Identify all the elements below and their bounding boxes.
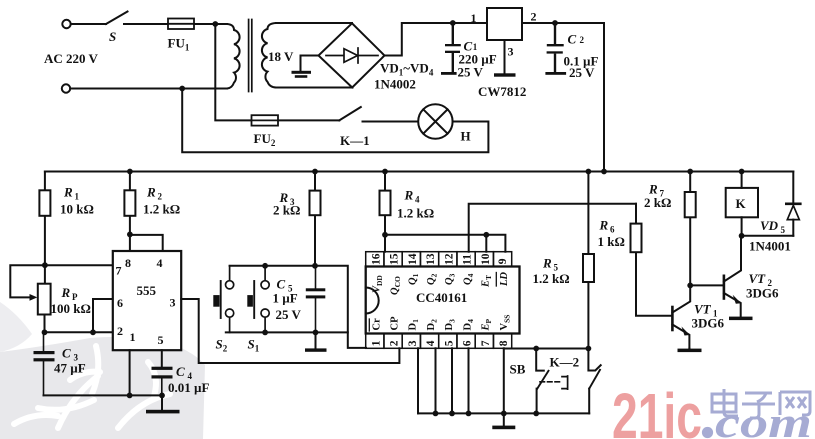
svg-text:3DG6: 3DG6 xyxy=(746,286,779,301)
svg-text:3: 3 xyxy=(508,45,514,59)
transformer core xyxy=(249,20,252,92)
svg-text:12: 12 xyxy=(443,253,455,265)
node C5 bottom xyxy=(313,330,319,336)
svg-text:1.2 kΩ: 1.2 kΩ xyxy=(143,202,180,217)
IC Cr overline xyxy=(368,319,370,331)
wire K-1 to lamp H xyxy=(363,121,419,123)
svg-text:4: 4 xyxy=(425,340,437,346)
node S1 top xyxy=(262,263,268,269)
IC bottom pin boxes 1..8 xyxy=(366,334,512,349)
svg-text:5: 5 xyxy=(781,225,786,235)
label RP 100k xyxy=(51,285,91,316)
AC input terminal top xyxy=(62,20,70,28)
label R7 2k xyxy=(644,182,671,211)
switch S blade xyxy=(106,12,128,25)
resistor R2 xyxy=(124,172,135,252)
svg-text:13: 13 xyxy=(425,253,437,265)
svg-text:2: 2 xyxy=(158,192,163,202)
wire RP wiper loop xyxy=(10,265,45,297)
node pin6 branch xyxy=(90,329,96,335)
wire S bottom to ground xyxy=(226,331,348,333)
svg-text:9: 9 xyxy=(497,258,509,264)
svg-text:LD: LD xyxy=(499,272,510,287)
svg-text:6: 6 xyxy=(462,340,474,346)
resistor R7 xyxy=(685,172,696,286)
svg-text:25 V: 25 V xyxy=(569,65,595,80)
svg-text:C: C xyxy=(62,346,71,361)
wire rail to K top xyxy=(741,172,743,188)
svg-text:VT: VT xyxy=(749,271,767,286)
svg-text:4: 4 xyxy=(415,195,420,205)
node R5 bottom xyxy=(586,346,592,352)
resistor R5 xyxy=(583,172,594,349)
label C4 0.01uF xyxy=(168,364,209,395)
svg-text:47 µF: 47 µF xyxy=(54,361,86,376)
contact K-2 lower lead xyxy=(588,389,590,414)
linkage dashes SB to K-2 xyxy=(540,381,562,383)
contact K-2 blade xyxy=(589,370,600,389)
resistor R3 xyxy=(310,172,321,266)
node R3 on rail xyxy=(312,169,318,175)
node rail ground xyxy=(501,411,507,417)
svg-text:CW7812: CW7812 xyxy=(478,84,526,99)
node R5 on rail xyxy=(586,169,592,175)
wire +12V rail xyxy=(45,171,793,173)
svg-text:K—1: K—1 xyxy=(340,133,370,148)
regulator pin 3 lead xyxy=(504,40,506,73)
svg-text:com: com xyxy=(715,400,812,439)
svg-text:2: 2 xyxy=(389,340,401,346)
svg-text:1: 1 xyxy=(75,192,80,202)
svg-text:R: R xyxy=(63,185,73,200)
wire AC top to switch S xyxy=(71,23,106,25)
fuse FU2 xyxy=(252,115,279,125)
wire secondary top to bridge xyxy=(276,22,352,24)
transformer secondary winding xyxy=(262,23,276,88)
node SB top xyxy=(533,346,539,352)
svg-text:1 µF: 1 µF xyxy=(273,291,298,306)
wire Q4 pin11 up and right to R6 xyxy=(469,204,636,252)
node R2 on rail xyxy=(127,169,133,175)
IC bottom pin names xyxy=(371,315,511,332)
wire FU2 branch vertical xyxy=(215,24,251,120)
svg-text:8: 8 xyxy=(125,256,131,270)
label C5 1uF 25V xyxy=(273,277,302,323)
svg-text:25 V: 25 V xyxy=(458,65,484,80)
svg-text:100 kΩ: 100 kΩ xyxy=(51,301,91,316)
node rail D2 xyxy=(433,411,439,417)
lamp H xyxy=(418,104,452,138)
switch S2 contacts xyxy=(226,266,234,333)
switch S2 actuator xyxy=(213,281,220,318)
svg-text:AC 220 V: AC 220 V xyxy=(44,51,99,66)
switch S1 contacts xyxy=(261,266,269,333)
regulator CW7812 box xyxy=(487,8,522,40)
svg-text:C: C xyxy=(568,32,577,47)
wire pin2 of 555 xyxy=(45,331,113,333)
diode VD5 xyxy=(786,172,800,236)
node R2 pin8 junction xyxy=(127,232,133,238)
svg-text:2: 2 xyxy=(531,10,537,24)
IC LD overline xyxy=(495,273,497,287)
wire VSS row to R5 bottom xyxy=(504,348,589,350)
wire VDD ET LD node xyxy=(385,235,505,252)
capacitor C3 xyxy=(34,332,55,395)
switch SB upper contact xyxy=(536,349,544,371)
node VT1 collector VT2 base xyxy=(687,283,693,289)
switch SB blade xyxy=(537,371,548,389)
svg-text:1N4002: 1N4002 xyxy=(374,77,416,92)
wire node to VT2 base xyxy=(690,284,724,286)
label C1 220uF 25V xyxy=(458,39,497,80)
svg-text:CC40161: CC40161 xyxy=(416,290,467,305)
label R4 1.2k xyxy=(397,188,434,221)
AC input terminal bottom xyxy=(62,84,70,92)
svg-text:1N4001: 1N4001 xyxy=(749,239,791,254)
node R4 bottom VDD xyxy=(382,232,388,238)
svg-text:1: 1 xyxy=(473,42,478,52)
capacitor C4 xyxy=(152,367,173,396)
bridge ground bars xyxy=(292,71,312,78)
wire VSS column xyxy=(503,348,505,413)
resistor R4 xyxy=(380,172,391,235)
ground symbol below rail xyxy=(492,413,515,429)
svg-text:5: 5 xyxy=(158,333,164,347)
linkage bracket xyxy=(562,376,568,389)
wire tie pins 8-4 xyxy=(130,235,163,251)
label VT2 3DG6 xyxy=(746,271,779,301)
IC bottom pin numbers xyxy=(371,340,511,346)
transistor VT1 xyxy=(672,285,701,352)
svg-text:8: 8 xyxy=(498,340,510,346)
resistor R6 xyxy=(631,204,672,316)
IC notch xyxy=(366,288,379,314)
wire K bottom to VD5 xyxy=(742,235,794,237)
label VT1 3DG6 xyxy=(692,302,725,331)
switch S1 actuator xyxy=(247,281,254,318)
red watermark 21ic.com (decorative) xyxy=(612,380,812,439)
svg-text:5: 5 xyxy=(443,340,455,346)
wire 555 pin5 down xyxy=(161,350,163,367)
svg-text:Cr: Cr xyxy=(371,318,382,331)
wire C3 bottom to 555 ground xyxy=(44,394,163,396)
label C3 47uF xyxy=(54,346,86,376)
wire switch S to fuse FU1 xyxy=(124,23,168,25)
svg-text:555: 555 xyxy=(137,283,157,298)
svg-text:1: 1 xyxy=(130,330,136,344)
node pin10 xyxy=(483,232,489,238)
label R2 1.2k xyxy=(143,185,180,217)
svg-text:SB: SB xyxy=(510,362,526,377)
ground below C5 xyxy=(305,332,327,351)
switch SB lower lead xyxy=(536,389,538,414)
svg-text:6: 6 xyxy=(610,225,615,235)
svg-text:15: 15 xyxy=(389,253,401,265)
svg-text:16: 16 xyxy=(371,253,383,265)
node RP bottom junction xyxy=(42,329,48,335)
svg-text:R: R xyxy=(599,218,609,233)
svg-text:R: R xyxy=(542,256,552,271)
label R1 10k xyxy=(60,185,94,217)
wire pin7 of 555 xyxy=(45,264,113,266)
node R7 on rail xyxy=(687,169,693,175)
node rail SB xyxy=(533,411,539,417)
contact K-2 upper lead xyxy=(588,349,600,371)
svg-text:1: 1 xyxy=(471,11,477,25)
bridge rectifier VD1-VD4 diamond xyxy=(319,23,385,87)
svg-text:2 kΩ: 2 kΩ xyxy=(644,195,671,210)
IC top pin names xyxy=(371,272,510,295)
svg-text:R: R xyxy=(61,285,71,300)
wire reset node horizontal xyxy=(230,266,366,348)
svg-text:4: 4 xyxy=(157,256,163,270)
node rail D4 xyxy=(466,411,472,417)
svg-text:21ic: 21ic xyxy=(612,380,702,439)
wire bottom ground rail xyxy=(418,412,589,414)
svg-text:S: S xyxy=(109,29,116,44)
contact K-1 blade xyxy=(339,107,361,120)
svg-text:1.2 kΩ: 1.2 kΩ xyxy=(397,206,434,221)
label C2 0.1uF 25V xyxy=(564,32,599,81)
wire 555 pin1 down xyxy=(129,350,131,395)
timer 555 box xyxy=(113,251,181,350)
node C4 ground xyxy=(159,393,165,399)
node power feed on rail xyxy=(601,169,607,175)
wire K bottom to node xyxy=(741,217,743,236)
capacitor C5 xyxy=(306,266,326,333)
svg-text:1: 1 xyxy=(371,340,383,346)
svg-text:2: 2 xyxy=(117,324,123,338)
svg-text:CP: CP xyxy=(390,316,401,331)
svg-text:H: H xyxy=(461,129,471,144)
IC top pin boxes 16..9 xyxy=(366,252,512,267)
svg-text:0.01 µF: 0.01 µF xyxy=(168,380,209,395)
regulator pin 3 common bar xyxy=(494,73,516,76)
svg-text:7: 7 xyxy=(116,264,122,278)
svg-text:VD1~VD4: VD1~VD4 xyxy=(380,61,434,78)
svg-text:3: 3 xyxy=(407,340,419,346)
node R4 on rail xyxy=(382,169,388,175)
potentiometer RP wiper arrow xyxy=(30,294,38,301)
svg-text:11: 11 xyxy=(462,254,474,265)
label R6 1k xyxy=(598,218,625,250)
capacitor C2 xyxy=(545,23,566,75)
svg-text:VD: VD xyxy=(760,218,779,233)
svg-text:3DG6: 3DG6 xyxy=(692,316,725,331)
transistor VT2 xyxy=(724,236,753,320)
node 555 pin1 ground xyxy=(127,393,133,399)
svg-text:1.2 kΩ: 1.2 kΩ xyxy=(533,271,570,286)
node rail D3 xyxy=(449,411,455,417)
node junction C2 top xyxy=(552,20,558,26)
wire pin6 of 555 xyxy=(93,299,113,332)
bridge ground wire xyxy=(301,56,319,71)
node junction C1 top xyxy=(450,20,456,26)
svg-text:1 kΩ: 1 kΩ xyxy=(598,234,625,249)
svg-text:2: 2 xyxy=(580,35,585,45)
svg-text:6: 6 xyxy=(117,296,123,310)
svg-text:C: C xyxy=(277,277,286,292)
bridge inner diode symbol xyxy=(326,48,378,63)
node R3 C5 top xyxy=(312,263,318,269)
svg-text:10: 10 xyxy=(480,253,492,265)
wire 555 pin3 output to CP xyxy=(181,299,399,363)
label VD5 1N4001 xyxy=(749,218,791,254)
svg-text:R: R xyxy=(404,188,414,203)
wire FU1 to node xyxy=(194,23,227,25)
node K bottom xyxy=(739,233,745,239)
svg-text:K—2: K—2 xyxy=(550,355,580,370)
svg-text:2 kΩ: 2 kΩ xyxy=(273,203,300,218)
svg-text:25 V: 25 V xyxy=(276,307,302,322)
wire lamp return loop xyxy=(182,89,488,153)
svg-text:10 kΩ: 10 kΩ xyxy=(60,202,94,217)
grey watermark bottom-left (decorative) xyxy=(0,302,205,439)
label R3 2k xyxy=(273,190,300,218)
node junction on AC bottom wire xyxy=(179,86,185,92)
capacitor C1 xyxy=(441,23,461,75)
node junction at transformer primary top xyxy=(212,21,218,27)
potentiometer RP body xyxy=(38,265,51,332)
relay K coil box xyxy=(726,188,758,217)
wire bridge output up and right to regulator xyxy=(385,23,488,56)
svg-text:VT: VT xyxy=(694,302,712,317)
wire +12V feed down to rail xyxy=(603,23,605,172)
node relay K on rail xyxy=(739,169,745,175)
svg-text:7: 7 xyxy=(480,340,492,346)
svg-text:C: C xyxy=(176,364,185,379)
svg-text:3: 3 xyxy=(170,296,176,310)
svg-text:K: K xyxy=(736,196,747,211)
wire regulator output xyxy=(522,22,604,24)
node S1 bottom xyxy=(262,330,268,336)
resistor R1 xyxy=(39,172,50,266)
node R1 pin7 junction xyxy=(42,262,48,268)
wire FU2 to contact K-1 xyxy=(278,119,339,121)
IC top pin numbers xyxy=(371,253,509,265)
svg-text:18 V: 18 V xyxy=(268,49,294,64)
transformer T primary winding xyxy=(227,24,240,89)
wire AC bottom xyxy=(70,88,227,90)
fuse FU1 xyxy=(168,19,194,30)
svg-text:14: 14 xyxy=(407,253,419,265)
wires IC data pins to bottom rail xyxy=(418,348,469,413)
counter IC CC40161 body xyxy=(366,267,520,334)
label R5 1.2k xyxy=(533,256,570,287)
svg-text:R: R xyxy=(146,185,156,200)
wire secondary bottom to bridge xyxy=(276,87,353,89)
label 555 pin digits xyxy=(116,256,176,347)
ground below C4 xyxy=(146,395,180,413)
